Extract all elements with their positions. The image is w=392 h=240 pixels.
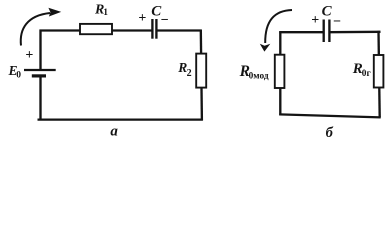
capacitor C (circuit a) right plate	[155, 19, 157, 39]
current direction arrow (circuit a, clockwise)	[21, 8, 61, 46]
resistor R0mod	[275, 55, 285, 88]
svg-text:C: C	[322, 4, 333, 20]
capacitor C (circuit b) left plate	[323, 20, 325, 43]
wire: circuit a top horizontal (left of capacitor C)	[40, 29, 152, 31]
wire: circuit b right vertical	[379, 31, 380, 118]
svg-text:0мод: 0мод	[249, 72, 269, 82]
battery E0 positive plate (long)	[24, 69, 56, 71]
wire: circuit b bottom horizontal (slightly skewed in scan)	[279, 114, 380, 117]
wire: circuit a right vertical	[201, 30, 202, 121]
svg-text:а: а	[110, 123, 118, 139]
resistor R2	[196, 54, 206, 88]
svg-text:0г: 0г	[362, 69, 371, 79]
svg-text:+: +	[311, 13, 319, 28]
wire: circuit a left vertical (battery to bottom corner)	[39, 76, 41, 120]
capacitor C (circuit b) right plate	[328, 20, 330, 43]
svg-text:2: 2	[187, 68, 192, 79]
svg-text:0: 0	[16, 71, 21, 81]
svg-text:+: +	[138, 11, 146, 26]
svg-text:−: −	[161, 13, 169, 28]
svg-text:+: +	[25, 48, 33, 63]
wire: circuit a left vertical (top, corner to battery)	[39, 30, 41, 70]
svg-text:б: б	[326, 125, 334, 141]
wire: circuit a top horizontal (right of capacitor C)	[157, 29, 202, 31]
resistor R0g	[374, 55, 384, 88]
wire: circuit b top horizontal (left of capacitor C)	[279, 31, 324, 33]
svg-text:1: 1	[103, 8, 108, 18]
wire: circuit b top horizontal (right of capacitor C)	[329, 31, 380, 34]
wire: circuit a bottom horizontal	[38, 118, 203, 120]
capacitor C (circuit a) left plate	[151, 19, 153, 39]
svg-text:−: −	[333, 15, 341, 30]
resistor R1	[80, 24, 112, 34]
wire: circuit b left vertical	[279, 31, 281, 115]
battery E0 negative plate (short thick)	[32, 74, 46, 77]
current direction arrow (circuit b, counterclockwise)	[260, 10, 292, 52]
